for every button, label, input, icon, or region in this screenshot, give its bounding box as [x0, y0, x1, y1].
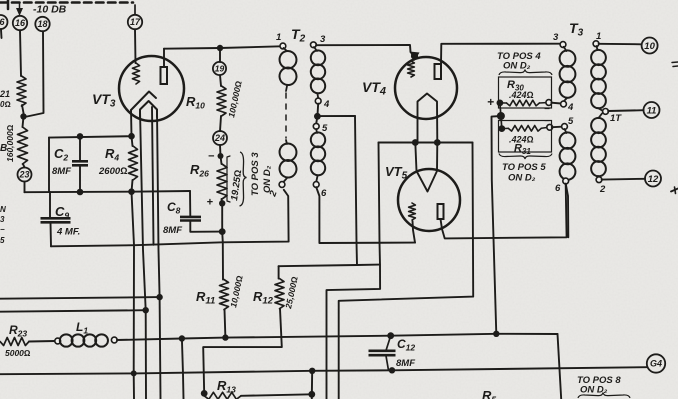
mark right edge 2	[671, 187, 678, 194]
label R30	[507, 79, 524, 93]
svg-text:18: 18	[37, 19, 47, 29]
wire 24 to R26	[219, 145, 222, 156]
svg-text:0Ω: 0Ω	[0, 100, 11, 109]
svg-text:.424Ω: .424Ω	[509, 90, 534, 100]
tube VT3 envelope	[119, 56, 184, 121]
resistor R13	[204, 392, 312, 399]
wire filament right drop	[339, 143, 474, 399]
svg-text:−: −	[208, 151, 215, 163]
svg-text:G4: G4	[650, 359, 662, 369]
label ON D2 (T2)	[262, 165, 273, 193]
wire R26 to C8 node	[221, 203, 223, 231]
terminal 18	[35, 17, 49, 31]
terminal T2-5	[313, 123, 319, 129]
label R13	[217, 378, 236, 395]
label C8	[167, 200, 181, 216]
wire R12 bottom	[203, 309, 282, 394]
label C12	[397, 337, 415, 353]
filament VT5	[415, 143, 437, 192]
node R26 top	[218, 153, 224, 159]
wire VT5 grid lead	[413, 221, 416, 243]
node y374 at R4ext	[131, 370, 137, 376]
wire VT3 plate to T2	[164, 46, 281, 48]
svg-text:2600Ω: 2600Ω	[98, 166, 127, 177]
coil T2 secondary lower	[309, 129, 326, 182]
label T3 pin3	[553, 32, 559, 43]
svg-text:1: 1	[276, 32, 281, 43]
resistor R30	[500, 100, 546, 106]
terminal T3-3	[560, 42, 566, 48]
wire R21 to node	[22, 105, 24, 113]
coil T3 primary lower	[558, 129, 577, 181]
terminal T3-2	[596, 177, 602, 183]
svg-text:17: 17	[130, 17, 141, 27]
coil T3 primary upper	[558, 47, 577, 102]
brace R30	[499, 70, 552, 76]
grid zigzag VT4	[408, 61, 415, 77]
node A	[20, 113, 26, 119]
node R26 bottom	[219, 200, 225, 206]
wire R23 to L1	[29, 340, 55, 343]
wire dashed control bus	[0, 0, 135, 15]
terminal 11	[644, 102, 660, 118]
label ON D2 (G4)	[580, 385, 608, 396]
label 8MF	[52, 166, 71, 177]
label minus R26	[208, 151, 215, 163]
wire x356 down	[355, 116, 357, 265]
wire shunt mid link	[500, 103, 502, 129]
brace G4	[578, 393, 630, 399]
wire y265 R12 line	[279, 265, 380, 267]
node R13 right	[308, 391, 315, 398]
node R4 top	[128, 133, 135, 140]
label R5	[482, 388, 496, 399]
label TO POS 5	[502, 162, 546, 173]
terminal T2-6	[313, 182, 319, 188]
grid zigzag VT3	[132, 63, 139, 84]
terminal 10	[642, 38, 658, 54]
node C2 bottom	[77, 189, 84, 196]
node y371 at 312	[309, 368, 315, 374]
capacitor C12	[369, 336, 396, 371]
wire VT5 plate to T3-6	[441, 184, 567, 238]
wire box left	[48, 138, 50, 193]
label 1T	[610, 113, 622, 124]
label 8MF C12	[396, 358, 415, 369]
plate VT5	[438, 204, 444, 219]
brace to pos3	[240, 152, 247, 206]
svg-text:N: N	[0, 205, 6, 214]
node R4 bottom	[128, 188, 135, 195]
grid chevron VT3	[131, 92, 156, 111]
label T2 pin6	[321, 188, 327, 199]
node end y310	[143, 307, 149, 313]
node shunt mid	[497, 112, 505, 120]
wire rail y242	[51, 190, 289, 247]
label R26	[190, 162, 209, 179]
capacitor C9	[41, 192, 71, 246]
wire VT3 cathode leg left	[140, 110, 146, 399]
label T3 pin2	[599, 184, 606, 195]
node filament A	[412, 139, 419, 146]
wire line y374 to G4	[0, 367, 647, 374]
svg-text:-10 DB: -10 DB	[33, 4, 67, 16]
svg-text:5: 5	[0, 236, 5, 245]
label T2 pin4	[323, 99, 330, 110]
svg-text:TO POS 3: TO POS 3	[250, 152, 261, 196]
mark right edge 1	[672, 62, 678, 67]
node rail 182	[179, 335, 185, 341]
wire line y310	[0, 310, 146, 312]
terminal T3-6	[563, 178, 569, 184]
wire to terminal 19	[219, 48, 221, 62]
node C2 top	[77, 133, 84, 140]
wire R26 node to R11	[221, 232, 224, 280]
terminal T3 tap	[603, 109, 609, 115]
svg-text:ON D₂: ON D₂	[503, 61, 531, 72]
wire T2-3 to VT4 grid	[316, 45, 411, 52]
terminal R31 right	[547, 124, 553, 130]
capacitor C2	[72, 136, 88, 192]
terminal T3-5	[562, 124, 568, 130]
node rail R11	[222, 334, 228, 340]
label T3 pin1	[596, 31, 601, 42]
wire C8 top drop	[189, 191, 191, 217]
wire L1 to rail	[117, 334, 558, 340]
terminal R30 right	[546, 100, 552, 106]
label TO POS 4	[497, 51, 541, 62]
svg-text:1T: 1T	[610, 113, 622, 124]
wire bus y192	[25, 191, 191, 192]
terminal T3-1	[593, 41, 599, 47]
label 100000 ohm	[226, 79, 244, 118]
terminal T2-4	[315, 98, 321, 104]
svg-text:3: 3	[0, 215, 5, 224]
label R10	[186, 94, 205, 111]
svg-text:5000Ω: 5000Ω	[5, 348, 31, 358]
svg-text:ON D₂: ON D₂	[508, 173, 536, 184]
label R11	[196, 289, 215, 307]
svg-text:5: 5	[322, 123, 328, 134]
label T2 pin5	[322, 123, 328, 134]
wire T3-6 down	[566, 184, 569, 238]
cathode VT3	[140, 101, 157, 117]
label R12	[253, 289, 274, 307]
svg-text:ON D₂: ON D₂	[262, 165, 273, 193]
label 4MF	[56, 227, 80, 238]
label plus R26	[207, 197, 214, 209]
svg-text:6: 6	[555, 183, 561, 194]
wire T3-1 to 10	[599, 43, 642, 46]
label C2	[54, 146, 68, 163]
svg-text:16: 16	[15, 18, 26, 28]
label minus R31	[544, 116, 550, 127]
wire 17 to grid	[134, 29, 137, 63]
svg-text:24: 24	[214, 133, 225, 143]
terminal T2-2	[279, 182, 285, 188]
svg-text:1: 1	[596, 31, 601, 42]
terminal 15 (cut)	[0, 15, 8, 38]
wire filament left drop	[327, 143, 381, 399]
terminal 17	[128, 15, 142, 29]
svg-text:+: +	[207, 197, 214, 209]
label T3 pin5	[568, 116, 574, 127]
label ON D2 (R31)	[508, 173, 536, 184]
brace R31 bottom	[499, 154, 552, 160]
inductor L1	[55, 320, 117, 347]
wire T3-2 to 12	[602, 178, 645, 181]
bracket R26	[227, 156, 230, 202]
wire 18 down	[27, 32, 44, 117]
resistor R10	[217, 75, 226, 131]
label 8MF C8	[163, 225, 182, 236]
resistor R23	[0, 323, 31, 358]
coil T2 primary upper	[278, 48, 298, 91]
label 2600 ohm	[98, 166, 127, 177]
resistor R26	[217, 156, 227, 203]
tube VT5 envelope	[398, 169, 460, 231]
label VT3	[92, 91, 116, 110]
wire drop from 182	[182, 339, 184, 399]
terminal T3-4	[561, 101, 567, 107]
grid cap VT4	[410, 52, 420, 62]
wire R12 top	[278, 266, 280, 278]
svg-text:4: 4	[323, 99, 330, 110]
svg-text:23: 23	[18, 170, 29, 180]
wire VT3 cathode leg right	[157, 110, 161, 399]
wire R13 node up	[311, 371, 313, 399]
node R30 left	[497, 100, 504, 107]
tube VT4 envelope	[395, 57, 457, 119]
label 10000 ohm	[228, 274, 245, 308]
label left cut text	[0, 205, 6, 245]
label T2	[291, 26, 306, 45]
svg-text:11: 11	[647, 105, 657, 116]
terminal T2-1	[280, 43, 286, 49]
terminal 16	[13, 16, 27, 30]
svg-text:10: 10	[644, 41, 655, 52]
svg-text:5: 5	[568, 116, 574, 127]
svg-text:12: 12	[648, 174, 659, 185]
svg-text:B: B	[0, 143, 7, 154]
plate VT4	[435, 64, 442, 79]
node C12 top	[387, 332, 394, 339]
label R31	[514, 143, 531, 157]
wire line y297	[0, 297, 160, 299]
coil T3 secondary lower	[590, 114, 608, 178]
label VT5	[385, 164, 408, 182]
label R4	[105, 146, 119, 163]
wire R30 to T3-4	[551, 102, 561, 105]
label .424 R30	[509, 90, 534, 100]
node rail-334 at shunt wire	[493, 331, 499, 337]
label minus R30	[544, 104, 550, 115]
svg-text:3: 3	[553, 32, 559, 43]
terminal T2-3	[311, 42, 317, 48]
svg-text:−: −	[0, 225, 5, 234]
label TO POS 3	[250, 152, 261, 196]
wire VT3 cathode mid	[152, 107, 154, 245]
label TO POS 8	[577, 375, 621, 386]
wire T2-6 down	[316, 187, 415, 243]
wire VT3 grid to R4 top	[130, 110, 133, 136]
wire 23 to ground bus	[24, 182, 26, 193]
coil T2 primary lower	[278, 140, 298, 183]
node filament B	[434, 139, 441, 146]
svg-text:8MF: 8MF	[396, 358, 415, 369]
node end y297	[156, 294, 162, 300]
label T2 pin2	[267, 189, 280, 199]
label T3 pin6	[555, 183, 561, 194]
terminal G4	[647, 354, 665, 372]
label T2 pin3	[320, 34, 326, 45]
wire VT3 plate up	[163, 49, 165, 67]
svg-text:+: +	[487, 95, 494, 109]
node R31 left	[498, 125, 505, 132]
wire T2-4 to tap node	[316, 104, 318, 124]
wire R4 extension down	[132, 192, 135, 399]
wire tap to 11	[608, 109, 643, 112]
resistor R11	[220, 280, 229, 338]
svg-text:−: −	[544, 116, 550, 127]
wire VT4 plate up	[441, 44, 561, 64]
wire filament rail	[379, 142, 473, 144]
label -10 DB	[33, 4, 67, 16]
coil T2 secondary upper	[309, 47, 326, 98]
label T3 pin4	[567, 102, 574, 113]
terminal 23	[18, 168, 32, 182]
node C8 bottom	[219, 228, 226, 235]
arrow into terminal 16	[16, 3, 23, 16]
terminal 24	[213, 131, 227, 145]
grid zigzag VT5	[409, 203, 416, 220]
resistor R12	[275, 279, 284, 309]
node C12 bottom	[389, 367, 395, 373]
svg-text:3: 3	[320, 34, 326, 45]
wire R31 to T3-5	[552, 126, 562, 129]
resistor R21	[0, 76, 26, 109]
filament VT4	[418, 94, 438, 143]
svg-text:TO POS 5: TO POS 5	[502, 162, 546, 173]
resistor 160000 ohm	[0, 117, 28, 165]
box R30	[499, 77, 552, 108]
label T3	[569, 20, 584, 39]
svg-text:−: −	[544, 104, 550, 115]
wire T2 core dashed	[285, 93, 287, 138]
wire tap right	[321, 115, 355, 117]
terminal 19	[213, 62, 226, 75]
label T2 pin1	[276, 32, 281, 43]
svg-text:19: 19	[215, 64, 225, 74]
svg-text:8MF: 8MF	[52, 166, 71, 177]
box R31	[499, 121, 552, 153]
svg-text:8MF: 8MF	[163, 225, 182, 236]
coil T3 secondary upper	[590, 46, 608, 111]
svg-text:4 MF.: 4 MF.	[56, 227, 80, 238]
wire 16 to R21	[20, 30, 21, 76]
node R13 left	[201, 390, 208, 397]
plate VT3	[161, 67, 168, 84]
label VT4	[362, 79, 386, 98]
svg-text:2: 2	[599, 184, 606, 195]
label .424 R31	[509, 135, 534, 145]
resistor R4	[129, 136, 138, 192]
wire shunt to C12 rail	[492, 116, 501, 334]
label ON D2 (R30)	[503, 61, 531, 72]
label C9	[55, 204, 69, 221]
node T2 tap	[314, 113, 321, 120]
svg-text:21: 21	[0, 89, 10, 99]
svg-text:6: 6	[321, 188, 327, 199]
wire box top y136	[49, 136, 132, 137]
terminal 12	[645, 171, 661, 187]
label plus R30	[487, 95, 494, 109]
capacitor C8	[180, 217, 222, 232]
label 25000 ohm	[283, 275, 300, 310]
label 19.25 ohm	[229, 169, 244, 201]
wire to terminal 23	[23, 164, 25, 167]
svg-text:4: 4	[567, 102, 574, 113]
wire rail-334 right drop	[558, 334, 562, 399]
resistor R31	[502, 126, 547, 132]
node R10 top	[217, 45, 223, 51]
